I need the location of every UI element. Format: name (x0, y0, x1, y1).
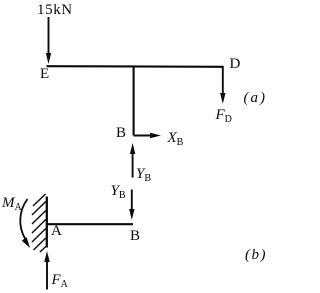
label Y_B (part a, right of up arrow) (136, 167, 151, 182)
wire member A-B horizontal bar (part b) (46, 223, 133, 225)
label Y_B (part b, left of down arrow) (111, 184, 126, 199)
wire vertical member from junction to B (part a) (133, 66, 135, 135)
node D label (230, 57, 241, 72)
label X_B (168, 131, 184, 146)
force arrow Y_B downward (part b) (129, 190, 134, 221)
force arrow X_B at B (part a) (134, 133, 161, 138)
label (a) (244, 91, 268, 106)
label F_A (52, 273, 68, 288)
force arrow Y_B upward (part a) (130, 143, 135, 178)
label M_A (2, 196, 22, 211)
node E label (40, 67, 49, 82)
node B label (part a) (116, 126, 126, 141)
force arrow F_A at A (part b) (44, 251, 49, 290)
fixed support hatching (32, 194, 46, 252)
node B label (part b) (130, 229, 140, 244)
wire member E-D horizontal bar (47, 65, 224, 68)
label 15kN (37, 3, 73, 18)
label (b) (245, 248, 267, 263)
force arrow 15kN (applied load at E) (46, 17, 51, 64)
label F_D (216, 108, 232, 123)
force arrow F_D at D (220, 66, 225, 104)
fixed support wall line at A (46, 197, 48, 248)
moment arc M_A (20, 199, 30, 248)
node A label (part b) (51, 224, 62, 239)
